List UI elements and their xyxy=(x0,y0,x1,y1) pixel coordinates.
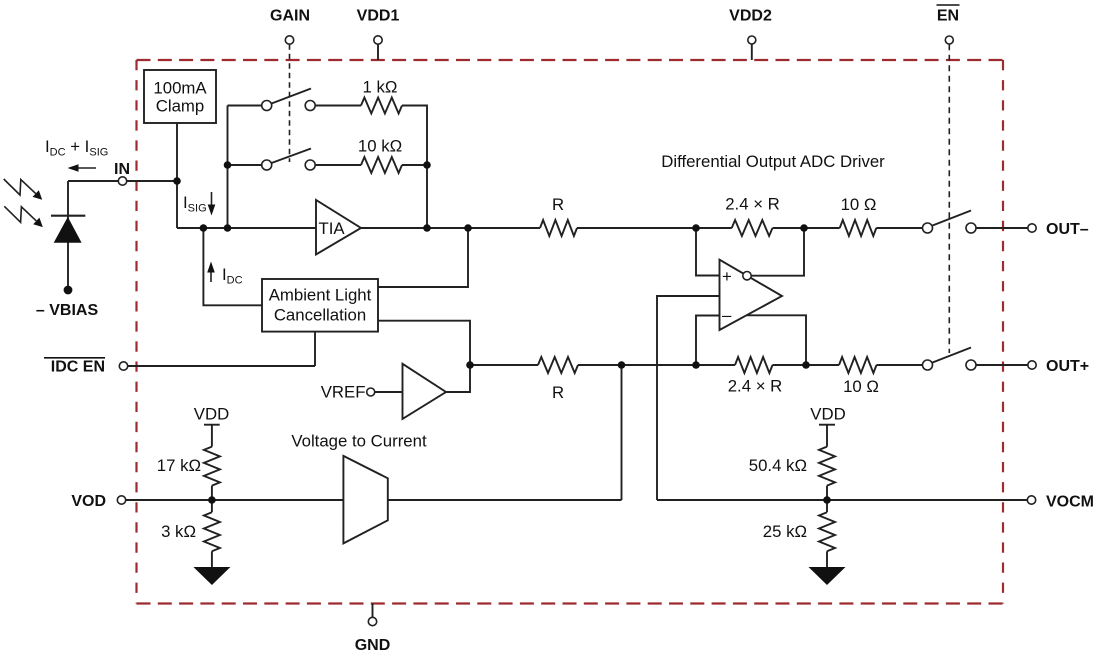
node upper 2.4xR left xyxy=(692,224,700,232)
switch S2 contacts xyxy=(262,160,272,170)
svg-text:1 kΩ: 1 kΩ xyxy=(363,78,398,97)
wire VDD to 50.4k xyxy=(826,425,828,447)
wire VREF pin to buffer xyxy=(371,391,403,393)
wire clamp to IN node and down to TIA input row xyxy=(176,123,178,228)
node ALC tap xyxy=(464,224,472,232)
op-amp VREF buffer xyxy=(403,364,447,419)
wire 25k to ground xyxy=(826,551,828,568)
wire 10k switch row left xyxy=(228,164,267,166)
svg-text:50.4 kΩ: 50.4 kΩ xyxy=(749,456,807,475)
svg-text:25 kΩ: 25 kΩ xyxy=(763,522,807,541)
wire 17k to 3k xyxy=(211,486,213,513)
svg-text:2.4 × R: 2.4 × R xyxy=(728,377,783,396)
wire VOCM row xyxy=(657,499,1032,501)
svg-text:ISIG: ISIG xyxy=(183,193,207,215)
wire VOD feed up to lower row xyxy=(621,365,623,500)
svg-text:IDC EN: IDC EN xyxy=(51,359,105,376)
wire gain network left vertical xyxy=(227,106,229,229)
wire photodiode vertical to VBIAS xyxy=(67,181,69,288)
IC boundary red dashed box xyxy=(137,59,1004,61)
resistor 50.4 kOhm xyxy=(819,447,835,486)
svg-text:Cancellation: Cancellation xyxy=(274,306,366,325)
wire 1k row middle xyxy=(310,105,361,107)
block V2I voltage to current trapezoid xyxy=(343,456,387,544)
svg-text:VOD: VOD xyxy=(71,493,106,510)
wire VDD to 17k xyxy=(211,425,213,447)
node TIA out feedback xyxy=(423,224,431,232)
divider VDD tick left xyxy=(204,424,220,426)
pin GAIN terminal xyxy=(285,36,293,44)
wire ALC top output to TIA row xyxy=(378,228,468,287)
wire OUT- switch to pin xyxy=(971,227,1032,229)
op-amp TIA xyxy=(316,200,361,255)
wire 3k to ground xyxy=(211,551,213,568)
arrow ISIG down xyxy=(211,192,213,207)
node 10k row right xyxy=(423,161,431,169)
pin VDD2 terminal xyxy=(748,36,756,44)
svg-text:–: – xyxy=(722,306,732,325)
node VOCM divider xyxy=(823,496,831,504)
node lower 2.4xR left xyxy=(692,361,700,369)
switch OUT- lever xyxy=(933,211,972,226)
resistor 10 Ohm upper xyxy=(840,220,877,236)
svg-text:EN: EN xyxy=(937,8,959,25)
svg-text:GAIN: GAIN xyxy=(270,8,310,25)
svg-text:GND: GND xyxy=(355,637,391,654)
svg-text:OUT–: OUT– xyxy=(1046,221,1089,238)
svg-text:Differential Output ADC Driver: Differential Output ADC Driver xyxy=(661,152,885,171)
wire GND stem xyxy=(372,604,374,618)
resistor R upper xyxy=(540,220,577,236)
switch OUT- contacts xyxy=(923,223,933,233)
wire diffamp top output xyxy=(751,228,804,276)
svg-text:+: + xyxy=(722,267,732,286)
wire VDD2 stem xyxy=(751,44,753,60)
resistor 2.4xR upper xyxy=(732,220,773,236)
svg-text:VDD2: VDD2 xyxy=(729,8,772,25)
pin EN terminal xyxy=(945,36,953,44)
switch S1 lever xyxy=(272,89,312,104)
pin GND terminal xyxy=(368,617,376,625)
wire lower row mid xyxy=(578,364,735,366)
ground symbol left xyxy=(193,567,230,585)
resistor 10 Ohm lower xyxy=(839,357,877,373)
node upper 2.4xR right xyxy=(800,224,808,232)
100mA Clamp box xyxy=(144,70,216,123)
pin OUT+ terminal xyxy=(1028,361,1036,369)
wire VOD row right of V2I xyxy=(388,499,622,501)
wire VREF buffer out xyxy=(446,365,470,392)
light arrow 2 xyxy=(4,206,36,222)
op-amp U1 fully differential ADC driver xyxy=(720,260,783,330)
node gain net left xyxy=(224,224,232,232)
wire 10k row middle xyxy=(310,164,361,166)
wire OUT+ switch to pin xyxy=(971,364,1032,366)
pin VREF terminal xyxy=(367,388,375,396)
svg-text:3 kΩ: 3 kΩ xyxy=(161,522,196,541)
wire 1k row right xyxy=(402,106,427,229)
wire upper row mid xyxy=(577,227,732,229)
wire IN line from photodiode to clamp junction xyxy=(68,180,177,182)
svg-text:100mA: 100mA xyxy=(153,79,207,98)
junction node IN xyxy=(173,177,181,185)
svg-text:IN: IN xyxy=(114,161,130,178)
svg-text:IDC: IDC xyxy=(222,265,243,287)
svg-text:– VBIAS: – VBIAS xyxy=(36,302,99,319)
divider VDD tick right xyxy=(819,424,835,426)
svg-text:17 kΩ: 17 kΩ xyxy=(157,456,201,475)
wire lower row left xyxy=(470,364,538,366)
svg-text:2.4 × R: 2.4 × R xyxy=(725,195,780,214)
wire diffamp bottom output xyxy=(747,315,806,365)
switch OUT+ contacts xyxy=(923,360,933,370)
svg-text:OUT+: OUT+ xyxy=(1046,358,1089,375)
svg-text:Ambient Light: Ambient Light xyxy=(269,286,372,305)
resistor 17 kOhm xyxy=(204,447,220,486)
resistor 1 kOhm xyxy=(361,98,402,114)
resistor 2.4xR lower xyxy=(735,357,773,373)
light arrow 1 xyxy=(4,179,36,195)
node VREF buffer out xyxy=(466,361,474,369)
node IDC tap xyxy=(200,224,208,232)
switch S2 lever xyxy=(272,149,312,164)
svg-text:VOCM: VOCM xyxy=(1046,494,1094,511)
svg-text:10 Ω: 10 Ω xyxy=(843,377,879,396)
dashed control line EN xyxy=(948,44,950,353)
wire to OUT+ switch xyxy=(877,364,928,366)
wire ALC bottom to IDC EN row xyxy=(314,332,316,366)
svg-text:Voltage to Current: Voltage to Current xyxy=(291,432,427,451)
wire ALC lower output to lower row xyxy=(378,321,470,365)
svg-text:10 kΩ: 10 kΩ xyxy=(358,137,402,156)
svg-text:R: R xyxy=(552,195,564,214)
svg-text:TIA: TIA xyxy=(318,219,345,238)
node VBIAS terminal dot xyxy=(64,286,73,295)
svg-text:Clamp: Clamp xyxy=(156,97,205,116)
switch S1 contacts xyxy=(262,101,272,111)
resistor R lower xyxy=(538,357,578,373)
node 10k row left xyxy=(224,161,232,169)
wire 50.4k to 25k xyxy=(826,486,828,513)
wire VDD1 stem xyxy=(377,44,379,60)
wire TIA input row xyxy=(177,227,316,229)
node lower 2.4xR right xyxy=(802,361,810,369)
switch OUT+ lever xyxy=(933,348,972,363)
svg-text:VREF: VREF xyxy=(321,383,366,402)
wire upper row after 2.4xR xyxy=(773,227,840,229)
resistor 3 kOhm xyxy=(204,512,220,551)
wire 1k switch row left xyxy=(228,105,267,107)
ground symbol right xyxy=(809,567,846,585)
wire IDC EN row xyxy=(124,365,316,367)
wire lower row after 2.4xR xyxy=(773,364,840,366)
node VOD join xyxy=(618,361,626,369)
wire VOCM to diffamp mid input xyxy=(657,296,720,500)
svg-text:VDD1: VDD1 xyxy=(357,8,400,25)
resistor 10 kOhm xyxy=(361,157,402,173)
pin OUT- terminal xyxy=(1028,224,1036,232)
pin VOD terminal xyxy=(117,496,125,504)
arrow IDC up xyxy=(210,270,212,282)
wire 10k row right xyxy=(402,164,427,166)
wire TIA output row xyxy=(361,227,540,229)
pin VDD1 terminal xyxy=(374,36,382,44)
photodiode D1 anode triangle xyxy=(54,217,82,243)
pin VOCM terminal xyxy=(1027,496,1035,504)
Ambient Light Cancellation box xyxy=(262,279,378,332)
svg-text:VDD: VDD xyxy=(194,405,229,424)
dashed control line GAIN xyxy=(289,44,291,162)
pin IN terminal xyxy=(118,177,126,185)
svg-text:R: R xyxy=(552,383,564,402)
node VOD divider xyxy=(208,496,216,504)
wire IDC tap down to ALC xyxy=(203,228,262,305)
wire VOD row xyxy=(122,499,344,501)
photodiode D1 cathode bar xyxy=(51,215,85,217)
svg-text:10 Ω: 10 Ω xyxy=(841,195,877,214)
resistor 25 kOhm xyxy=(819,512,835,551)
svg-text:VDD: VDD xyxy=(810,405,845,424)
svg-text:IDC + ISIG: IDC + ISIG xyxy=(45,137,108,159)
wire to OUT- switch xyxy=(876,227,927,229)
pin IDC EN terminal xyxy=(119,362,127,370)
wire diffamp - feedback xyxy=(696,316,720,366)
inverting output bubble xyxy=(743,272,751,280)
current direction arrow IDC+ISIG xyxy=(77,167,96,169)
wire diffamp + feedback xyxy=(696,228,720,276)
